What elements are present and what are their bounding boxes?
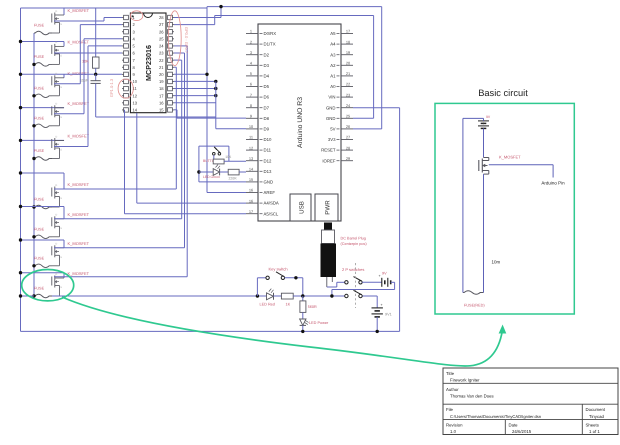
transistor Q3 K_MOSFET	[52, 73, 64, 96]
LED D1 red	[267, 289, 274, 300]
wire gate ch9 to MCP pin24	[54, 46, 187, 277]
node drain junction J9	[19, 271, 22, 274]
transistor Q2 K_MOSFET	[52, 41, 64, 64]
svg-text:16: 16	[159, 100, 164, 105]
wire cap bottom run	[96, 116, 216, 118]
fuse F1	[34, 31, 52, 35]
svg-text:FUSE: FUSE	[34, 198, 45, 202]
label K_MOSFET Q4	[68, 101, 90, 106]
svg-text:26: 26	[159, 29, 164, 34]
svg-text:7: 7	[250, 92, 252, 97]
wire MCP pin18	[174, 88, 216, 90]
svg-text:1 of 1: 1 of 1	[589, 429, 600, 434]
svg-text:GND: GND	[264, 180, 274, 185]
svg-text:Sheets: Sheets	[586, 422, 599, 427]
svg-text:27: 27	[159, 22, 164, 27]
node bus left corner	[19, 294, 22, 297]
svg-text:K_MOSFET: K_MOSFET	[68, 101, 90, 106]
fuse F9	[34, 294, 52, 298]
label D2	[203, 175, 220, 179]
node fuse junction JF9	[32, 294, 35, 297]
svg-text:PWR: PWR	[325, 200, 332, 215]
node drain junction J2	[19, 40, 22, 43]
svg-text:FUSE: FUSE	[34, 287, 45, 291]
svg-text:D11: D11	[264, 148, 272, 153]
svg-text:Date: Date	[509, 422, 519, 427]
svg-text:27: 27	[346, 135, 350, 140]
svg-text:D13: D13	[264, 169, 272, 174]
label K_MOSFET Q1	[68, 8, 90, 13]
label K_MOSFET Q5	[68, 134, 90, 139]
svg-text:D: D	[56, 41, 58, 44]
wire mini top branch	[199, 146, 229, 161]
fuse F7	[34, 235, 52, 239]
label key switch	[269, 267, 288, 272]
node drain junction J6	[19, 171, 22, 174]
node pin17 junction	[214, 94, 217, 97]
svg-text:25: 25	[346, 114, 350, 119]
svg-text:3V3: 3V3	[328, 137, 336, 142]
transistor Q4 K_MOSFET	[52, 103, 64, 126]
label C1 15pF	[80, 79, 89, 83]
svg-text:IOREF: IOREF	[322, 158, 336, 163]
svg-text:25: 25	[159, 36, 164, 41]
svg-text:GP0.0 - GP0.7: GP0.0 - GP0.7	[184, 27, 189, 54]
fuse F6	[34, 205, 52, 209]
node fuse junction JF7	[32, 235, 35, 238]
svg-text:A2: A2	[330, 63, 336, 68]
transistor Q9 K_MOSFET	[52, 273, 64, 296]
wire drain feed channel 1	[21, 8, 208, 15]
svg-text:FUSE: FUSE	[34, 24, 45, 28]
svg-text:D: D	[56, 184, 58, 187]
svg-text:1.0: 1.0	[450, 429, 457, 434]
wire gate ch4 to MCP pin4	[54, 39, 122, 114]
annotation ellipse MCP left pins	[118, 79, 133, 98]
svg-text:FUSE: FUSE	[34, 149, 45, 153]
wire drain feed channel 5	[21, 139, 65, 141]
node key switch junction	[294, 276, 297, 279]
svg-text:D: D	[56, 10, 58, 13]
node fuse junction JF2	[32, 63, 35, 66]
svg-text:FUSE: FUSE	[34, 227, 45, 231]
svg-text:1: 1	[250, 29, 252, 34]
svg-text:A3: A3	[330, 52, 336, 57]
svg-text:19: 19	[159, 79, 164, 84]
switch S3 pushbutton	[213, 147, 221, 155]
svg-text:19: 19	[346, 50, 350, 55]
svg-text:24: 24	[159, 44, 164, 49]
svg-text:14: 14	[133, 108, 138, 113]
svg-text:MCP23016: MCP23016	[144, 45, 153, 81]
label Arduino Pin	[541, 181, 565, 186]
svg-text:C:\Users\Thomas\Documents\Tiny: C:\Users\Thomas\Documents\TinyCAD\Ignite…	[450, 414, 542, 419]
svg-text:D: D	[56, 135, 58, 138]
svg-text:D6: D6	[264, 95, 270, 100]
svg-text:D3: D3	[264, 63, 270, 68]
label 2P switches	[342, 267, 364, 272]
wire fuse return rail	[33, 33, 35, 296]
label R1 10K	[82, 60, 89, 64]
svg-text:S: S	[60, 227, 62, 230]
node pin20 junction	[205, 73, 208, 76]
svg-text:23: 23	[346, 92, 350, 97]
wire GND pin25 loop	[353, 16, 374, 119]
svg-text:DC Barrel Plug: DC Barrel Plug	[341, 237, 366, 241]
node bus junction A	[256, 294, 259, 297]
svg-text:D: D	[56, 73, 58, 76]
svg-text:A5: A5	[330, 31, 336, 36]
svg-text:D: D	[56, 243, 58, 246]
svg-text:D2: D2	[264, 52, 270, 57]
wire channel3 drain row to MCP pin9	[64, 73, 122, 75]
svg-text:D5: D5	[264, 84, 270, 89]
label FUSE F5	[34, 149, 45, 153]
svg-text:A0: A0	[330, 84, 336, 89]
fuse F3	[34, 94, 52, 98]
annotation text GP1	[109, 78, 114, 97]
label FUSE F4	[34, 116, 45, 120]
svg-text:FUSE: FUSE	[34, 116, 45, 120]
label BT1 9V	[382, 271, 387, 275]
svg-text:26: 26	[346, 124, 350, 129]
wire gate ch1 to MCP pin1	[54, 18, 122, 22]
node bus junction B	[301, 294, 304, 297]
label LED Power	[309, 321, 329, 325]
svg-text:560R: 560R	[308, 305, 317, 309]
label FUSE F3	[34, 86, 45, 90]
label Q10 K_MOSFET	[499, 154, 521, 159]
svg-text:D10: D10	[264, 137, 272, 142]
node drain junction J3	[19, 73, 22, 76]
svg-text:Arduino UNO R3: Arduino UNO R3	[297, 97, 304, 148]
battery BT2 9V1	[372, 303, 383, 317]
svg-text:2: 2	[250, 39, 252, 44]
svg-text:S: S	[60, 55, 62, 58]
svg-text:28: 28	[346, 145, 350, 150]
node fuse junction JF6	[32, 205, 35, 208]
svg-text:D12: D12	[264, 158, 272, 163]
label K_MOSFET Q7	[68, 212, 90, 217]
node pin19 junction	[214, 80, 217, 83]
svg-text:Firework Igniter: Firework Igniter	[450, 378, 480, 383]
wire gate to arduino pin	[489, 165, 553, 178]
label FUSE F9	[34, 287, 45, 291]
label FUSE F2	[34, 55, 45, 59]
resistor R4 1K	[274, 293, 303, 299]
svg-text:S: S	[60, 286, 62, 289]
wire MCP pin16	[174, 102, 216, 104]
op-amp U2 Arduino UNO R3	[246, 24, 353, 221]
switch S2a power switch	[345, 277, 363, 284]
svg-text:FUSE: FUSE	[34, 55, 45, 59]
svg-text:20: 20	[159, 72, 164, 77]
svg-text:GP1.0-1.3: GP1.0-1.3	[109, 78, 114, 97]
svg-text:D9: D9	[264, 127, 270, 132]
annotation ellipse MCP right pins	[168, 11, 181, 66]
node drain junction J7	[19, 205, 22, 208]
wire MCP pin19	[174, 80, 216, 82]
svg-text:D: D	[56, 103, 58, 106]
label FUSE F1	[34, 24, 45, 28]
label K_MOSFET Q3	[68, 71, 90, 76]
switch S1 key switch	[257, 272, 302, 296]
svg-text:Basic circuit: Basic circuit	[478, 88, 528, 98]
svg-text:Title: Title	[446, 371, 455, 376]
svg-text:8: 8	[250, 103, 252, 108]
wire switch to battery 9V	[362, 281, 382, 283]
wire MCP pin15 to D8	[174, 110, 246, 118]
node bottom junction LED	[301, 330, 304, 333]
svg-text:24: 24	[346, 103, 351, 108]
label S3	[203, 159, 217, 163]
svg-text:Arduino Pin: Arduino Pin	[541, 181, 565, 186]
node fuse junction JF5	[32, 157, 35, 160]
svg-text:D4: D4	[264, 74, 270, 79]
svg-text:16: 16	[249, 188, 253, 193]
svg-text:RESET: RESET	[321, 148, 336, 153]
svg-text:21: 21	[159, 65, 164, 70]
fuse F5	[34, 157, 52, 161]
transistor Q6 K_MOSFET	[52, 184, 64, 207]
wire mosfet source to fuse	[483, 174, 485, 289]
label LED Red	[260, 303, 275, 307]
wire GND pin24 to bottom	[353, 108, 400, 332]
label J1	[341, 237, 368, 247]
svg-text:15: 15	[249, 177, 253, 182]
node fuse junction JF3	[32, 94, 35, 97]
wire MCP pin28 to top rail	[174, 7, 221, 18]
svg-text:11: 11	[249, 135, 253, 140]
label K_MOSFET Q2	[68, 39, 90, 44]
svg-text:Thomas Van den Does: Thomas Van den Does	[450, 394, 494, 399]
node barrel sleeve junction	[330, 294, 333, 297]
wire drain feed channel 6	[21, 173, 65, 189]
svg-text:S: S	[60, 256, 62, 259]
wire drain feed channel 9	[21, 273, 65, 278]
node top rail junction	[219, 5, 222, 8]
svg-text:VIN: VIN	[328, 95, 335, 100]
svg-text:Key switch: Key switch	[269, 267, 288, 272]
svg-text:K_MOSFET: K_MOSFET	[499, 154, 521, 159]
label BT2 9V1	[385, 313, 392, 317]
battery BT1 9V	[379, 274, 391, 287]
transistor Q5 K_MOSFET	[52, 135, 64, 158]
svg-text:D1/TX: D1/TX	[264, 42, 276, 47]
svg-text:LED Power: LED Power	[309, 321, 329, 325]
svg-text:12: 12	[133, 93, 138, 98]
wire AREF run	[207, 192, 246, 194]
label K_MOSFET Q8	[68, 241, 90, 246]
wire gate ch6 to MCP pin21	[54, 67, 176, 189]
svg-text:14: 14	[249, 167, 254, 172]
svg-text:15: 15	[159, 108, 164, 113]
switch S2b power switch	[345, 290, 363, 297]
svg-text:AREF: AREF	[264, 190, 276, 195]
svg-text:10K: 10K	[225, 155, 232, 159]
wire main GND bus	[21, 295, 378, 297]
LED D3 power	[300, 319, 309, 331]
svg-text:18: 18	[159, 86, 164, 91]
wire MCP pin17	[174, 95, 216, 97]
title block	[443, 368, 618, 435]
svg-text:13: 13	[249, 156, 253, 161]
wire drain feed channel 2	[21, 42, 65, 47]
node junction R1/pin9	[94, 73, 97, 76]
svg-text:23: 23	[159, 51, 164, 56]
highlight ellipse channel 9	[22, 270, 74, 301]
node mini junction	[197, 170, 200, 173]
label FUSE F8	[34, 256, 45, 260]
svg-text:S: S	[60, 116, 62, 119]
wire barrel to switch	[327, 282, 345, 287]
wire basic loop	[463, 118, 484, 289]
transistor Q1 K_MOSFET	[52, 10, 64, 33]
node fuse junction JF8	[32, 264, 35, 267]
resistor R5 560R	[300, 296, 306, 319]
wire MCP pin27 to second rail	[174, 16, 215, 25]
label FUSE F7	[34, 227, 45, 231]
svg-text:16: 16	[249, 198, 253, 203]
wire drain feed channel 4	[21, 107, 65, 109]
svg-text:D7: D7	[264, 105, 270, 110]
fuse F2	[34, 63, 52, 67]
svg-text:17: 17	[159, 93, 164, 98]
svg-text:24/6/2015: 24/6/2015	[512, 429, 532, 434]
svg-text:D: D	[56, 273, 58, 276]
wire battery 9V1 to bus	[376, 317, 378, 332]
svg-text:6: 6	[250, 82, 252, 87]
svg-text:GND: GND	[326, 116, 336, 121]
label F10 FUSE	[464, 304, 485, 308]
svg-text:Tinycad: Tinycad	[589, 414, 604, 419]
svg-text:10K: 10K	[82, 60, 89, 64]
op-amp U1 MCP23016 IC	[122, 13, 174, 113]
wire SCL run	[125, 110, 247, 214]
svg-text:4: 4	[250, 61, 253, 66]
wire switch to battery 9V1	[376, 296, 378, 308]
label R2	[225, 155, 232, 159]
LED D2 green	[199, 165, 220, 176]
svg-text:A4/SDA: A4/SDA	[264, 201, 279, 206]
connector USB	[290, 194, 311, 221]
wire top 5V rail	[207, 6, 382, 8]
svg-text:(Centerpin pos): (Centerpin pos)	[341, 242, 368, 246]
svg-text:5V: 5V	[330, 127, 335, 132]
svg-text:K_MOSFET: K_MOSFET	[68, 182, 90, 187]
svg-text:18: 18	[346, 39, 350, 44]
svg-text:LED Red: LED Red	[260, 303, 275, 307]
svg-text:15pF: 15pF	[80, 79, 89, 83]
svg-text:+: +	[379, 274, 381, 278]
wire second GND rail	[215, 15, 374, 17]
svg-text:21: 21	[346, 71, 350, 76]
label K_MOSFET Q6	[68, 182, 90, 187]
svg-text:FUSE(RED): FUSE(RED)	[464, 304, 485, 308]
svg-text:K_MOSFET: K_MOSFET	[68, 271, 90, 276]
svg-text:9V: 9V	[486, 115, 491, 119]
label Basic circuit title	[478, 88, 528, 98]
svg-text:1K: 1K	[286, 303, 291, 307]
svg-text:3: 3	[250, 50, 252, 55]
svg-text:220R: 220R	[229, 177, 238, 181]
wire 5V pin26 loop	[353, 7, 382, 129]
svg-text:A5/SCL: A5/SCL	[264, 211, 279, 216]
label 10m igniter wire	[492, 260, 501, 265]
svg-text:9: 9	[250, 114, 252, 119]
node drain junction J5	[19, 139, 22, 142]
wire SDA run	[137, 113, 246, 203]
wire bus to D9	[216, 81, 246, 128]
svg-text:D: D	[56, 214, 58, 217]
svg-text:5: 5	[250, 71, 252, 76]
svg-text:LED Green: LED Green	[203, 175, 220, 179]
fuse F10 igniter	[463, 290, 484, 295]
label R3	[229, 177, 238, 181]
svg-text:9V: 9V	[382, 271, 387, 275]
svg-text:10: 10	[133, 79, 138, 84]
node pin18 junction	[214, 87, 217, 90]
svg-text:K_MOSFET: K_MOSFET	[68, 241, 90, 246]
svg-text:K_MOSFET: K_MOSFET	[68, 71, 90, 76]
svg-text:K_MOSFET: K_MOSFET	[68, 8, 90, 13]
resistor R3 220R	[220, 169, 246, 175]
wire gate ch2 to MCP pin6	[54, 52, 122, 54]
svg-text:22: 22	[346, 82, 350, 87]
svg-text:Author: Author	[446, 387, 459, 392]
transistor Q8 K_MOSFET	[52, 243, 64, 266]
transistor Q10 basic K_MOSFET	[479, 158, 489, 175]
svg-text:USB: USB	[299, 201, 306, 214]
svg-text:S: S	[60, 149, 62, 152]
svg-text:FUSE: FUSE	[34, 86, 45, 90]
svg-text:Revision: Revision	[446, 422, 463, 427]
wire battery to mosfet	[483, 118, 485, 157]
svg-text:D0/RX: D0/RX	[264, 31, 277, 36]
svg-text:D8: D8	[264, 116, 270, 121]
transistor Q7 K_MOSFET	[52, 214, 64, 237]
wire gate ch5 to MCP pin5	[54, 46, 122, 147]
svg-text:File: File	[446, 407, 454, 412]
svg-text:GND: GND	[326, 105, 336, 110]
wire gate ch7 to MCP pin22	[54, 60, 182, 219]
svg-text:22: 22	[159, 58, 164, 63]
fuse F8	[34, 264, 52, 268]
label FUSE F6	[34, 198, 45, 202]
svg-text:17: 17	[346, 29, 350, 34]
frame basic circuit box	[435, 103, 574, 314]
label R5 560R	[308, 305, 317, 309]
connector PWR	[315, 194, 338, 221]
wire left supply rail	[20, 8, 22, 331]
svg-text:12: 12	[249, 145, 253, 150]
battery BT3 basic 9V	[478, 115, 491, 128]
svg-text:S: S	[60, 197, 62, 200]
wire MCP pin20 run	[174, 7, 207, 193]
wire gate ch8 to MCP pin23	[54, 53, 185, 248]
wire battery return loop	[332, 282, 395, 296]
wire drain feed channel 3	[21, 74, 65, 78]
svg-text:29: 29	[346, 156, 350, 161]
svg-text:A1: A1	[330, 74, 336, 79]
svg-text:K_MOSFET: K_MOSFET	[68, 134, 90, 139]
fuse F4	[34, 124, 52, 128]
svg-text:20: 20	[346, 61, 351, 66]
svg-text:K_MOSFET: K_MOSFET	[68, 212, 90, 217]
svg-text:+: +	[381, 303, 383, 307]
svg-text:S: S	[60, 86, 62, 89]
svg-text:10: 10	[249, 124, 254, 129]
